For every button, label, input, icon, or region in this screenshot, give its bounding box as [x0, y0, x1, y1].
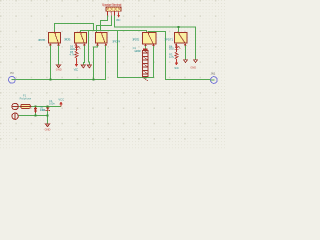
junction S5 drop on long net	[177, 26, 179, 28]
switch S1	[49, 32, 61, 46]
pin 1	[107, 11, 109, 15]
wire S3 bottom-left pin to bus	[94, 45, 98, 80]
wire terminal pin3 long net to S5 and GND	[115, 16, 196, 60]
wire GND drop x88.5	[88, 31, 91, 66]
wire S4 bottom-left pin to C1	[145, 45, 147, 49]
svg-text:GND: GND	[190, 65, 196, 69]
svg-text:1uF 63V: 1uF 63V	[134, 49, 141, 53]
ground GND at x195	[194, 60, 198, 63]
svg-text:JN1: JN1	[211, 72, 216, 76]
wire fuse to VCC arrow	[31, 106, 62, 108]
wire C4 links	[47, 107, 49, 108]
wire S4 top pin to right bus and output pad	[149, 32, 211, 80]
svg-text:3PDT1: 3PDT1	[164, 37, 173, 41]
pad P3 input circle	[9, 76, 16, 83]
resistor R3 under S5	[175, 52, 178, 59]
svg-text:P3: P3	[10, 71, 14, 75]
svg-text:100n: 100n	[49, 102, 55, 106]
svg-text:VCC: VCC	[174, 66, 179, 70]
wire battery plus to fuse	[19, 106, 21, 108]
wire S2 bottom-left pin to LED column	[76, 45, 78, 46]
wire C1 bottom stub to mid bus	[145, 77, 147, 78]
supply VCC bottom cluster	[59, 101, 63, 106]
wire D5 bottom link	[35, 113, 37, 116]
ground GND bottom cluster	[46, 124, 50, 127]
junction C1 on bus	[144, 76, 146, 78]
junction S3 left path on bus	[92, 78, 94, 80]
svg-text:1N4004: 1N4004	[40, 109, 46, 112]
diode D5	[34, 106, 37, 113]
junction S1 bottom pin on bus	[49, 78, 51, 80]
switch S4	[143, 32, 157, 46]
switch S2	[75, 32, 87, 46]
svg-text:GND: GND	[45, 128, 51, 132]
ground GND under S2	[81, 65, 85, 68]
wire drop to S5 top	[178, 27, 180, 33]
svg-text:4.7k: 4.7k	[70, 53, 76, 57]
pin 4	[118, 11, 120, 13]
wire S5 bottom-left pin to LED column	[176, 45, 178, 46]
svg-text:3PDT6: 3PDT6	[38, 38, 46, 42]
LED D4 under S5	[175, 45, 181, 52]
svg-text:3PDT2: 3PDT2	[132, 38, 139, 42]
wire S5 bottom-right pin to GND	[185, 45, 187, 60]
resistor R5 under S2	[75, 51, 78, 58]
capacitor C1 under S4	[143, 48, 149, 81]
LED D6 under S2	[75, 45, 81, 51]
fuse F1 polyfuse	[20, 104, 32, 108]
junction C4 bottom	[46, 114, 48, 116]
wire vertical x117 to mid bus to S4 right pin	[118, 31, 154, 78]
wire S2 bottom-right pin to GND	[83, 45, 84, 66]
svg-text:VCC: VCC	[116, 18, 121, 22]
junction D5 bottom	[34, 114, 36, 116]
svg-text:4.7k: 4.7k	[169, 55, 175, 59]
supply VCC below R3	[175, 59, 179, 66]
battery plus terminal	[11, 103, 19, 109]
supply VCC at terminal pin 4	[117, 13, 120, 18]
wire S2 top pin run y30.5 to S4 top	[81, 31, 147, 34]
ground GND under S1	[57, 65, 61, 68]
switch S3	[96, 32, 108, 46]
pin 3	[114, 11, 116, 15]
svg-text:3PDT5: 3PDT5	[64, 38, 71, 42]
capacitor C4	[46, 108, 49, 111]
ground GND at x88.4	[87, 65, 91, 68]
svg-text:3PDT4: 3PDT4	[112, 39, 120, 43]
wire battery minus run to GND	[19, 116, 48, 124]
battery minus terminal	[12, 113, 18, 120]
svg-text:Polyfuse: Polyfuse	[20, 96, 32, 100]
wire net A top of S1 to S2	[55, 24, 94, 34]
connector J1 speaker terminal	[106, 7, 121, 16]
ground GND under S5	[184, 60, 188, 63]
svg-text:VCC: VCC	[58, 98, 64, 102]
wire terminal pin2 to S3 top-left	[97, 16, 112, 34]
pin 2	[110, 11, 112, 15]
wire terminal pin1 to GND run	[101, 16, 108, 31]
switch S5	[175, 32, 188, 46]
wire S1 bottom-right pin to GND	[58, 45, 60, 66]
wire S1 bottom-left pin to bus	[50, 45, 52, 80]
supply VCC below R5	[75, 58, 79, 67]
junction D5 top	[34, 105, 36, 107]
svg-text:VCC: VCC	[74, 68, 79, 72]
wire bottom bus left	[15, 45, 105, 80]
svg-text:GND: GND	[56, 67, 62, 71]
junction C4 top	[46, 105, 48, 107]
pad P4 output circle	[211, 77, 218, 84]
svg-text:LED: LED	[169, 47, 174, 51]
svg-text:Speaker Terminal: Speaker Terminal	[102, 3, 122, 7]
